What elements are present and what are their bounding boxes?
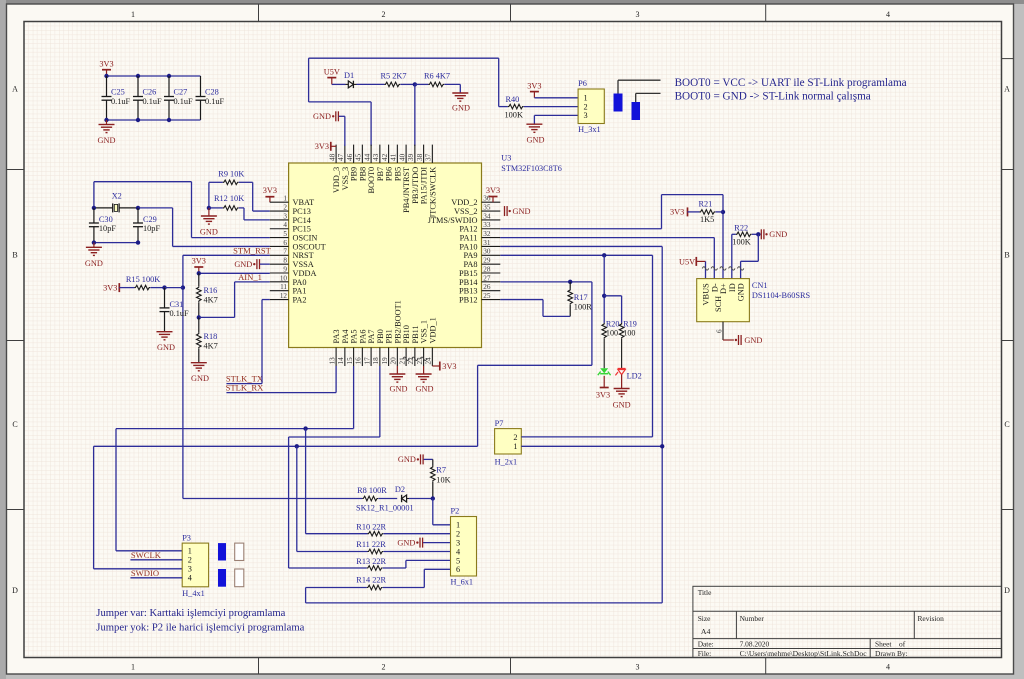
node R22/GND <box>756 232 760 236</box>
svg-text:3: 3 <box>584 111 588 120</box>
svg-text:C29: C29 <box>143 215 157 224</box>
svg-text:PC15: PC15 <box>293 225 311 234</box>
svg-text:VDD_2: VDD_2 <box>451 198 477 207</box>
svg-text:B: B <box>1004 250 1009 259</box>
wire P6 pin3 to GND <box>534 115 578 124</box>
svg-text:42: 42 <box>381 153 389 161</box>
capacitor C28 0.1uF <box>196 76 225 120</box>
node PA9/R20 <box>602 253 606 257</box>
svg-text:GND: GND <box>234 260 252 269</box>
svg-text:2: 2 <box>188 556 192 565</box>
resistor R8 100R <box>357 486 387 501</box>
svg-text:R10 22R: R10 22R <box>356 522 386 531</box>
svg-text:4K7: 4K7 <box>204 296 218 305</box>
svg-text:3V3: 3V3 <box>442 362 456 371</box>
capacitor C26 0.1uF <box>133 76 162 120</box>
wire ID to R22 <box>731 234 733 278</box>
wire R12 to PC14 <box>244 208 270 220</box>
resistor R5 2K7 <box>381 72 407 87</box>
svg-text:PA7: PA7 <box>367 330 376 344</box>
svg-text:D: D <box>1004 586 1010 595</box>
svg-text:C: C <box>12 420 17 429</box>
connector P6 H_3x1 <box>578 79 604 134</box>
wire PA11 to D- (USB) <box>500 238 714 279</box>
svg-text:D: D <box>12 586 18 595</box>
svg-text:PA5: PA5 <box>350 330 359 344</box>
svg-text:PB12: PB12 <box>459 295 477 304</box>
resistor R11 22R <box>356 540 450 554</box>
svg-text:14: 14 <box>337 357 345 365</box>
node R15/C31 <box>162 285 166 289</box>
note BOOT0=GND <box>675 91 871 103</box>
power port 3V3 (R15) <box>103 283 119 292</box>
ground (crystal) <box>85 243 103 268</box>
svg-text:DS1104-B60SRS: DS1104-B60SRS <box>752 291 811 300</box>
ground (R6) <box>452 93 470 113</box>
IC U3 STM32F103C8T6 <box>270 145 562 366</box>
ground bracket (VSS_3 pin47) <box>313 111 345 146</box>
svg-text:R19: R19 <box>623 319 637 328</box>
svg-text:Title: Title <box>698 588 712 597</box>
wire NRST <box>183 255 270 498</box>
resistor R12 10K <box>209 194 244 210</box>
svg-text:A: A <box>12 84 18 93</box>
svg-text:File:: File: <box>698 649 712 658</box>
svg-text:PB7: PB7 <box>376 167 385 181</box>
wire U5V to VBUS <box>705 261 707 278</box>
wire BOOT0 to R40 <box>499 58 508 106</box>
svg-text:C30: C30 <box>99 215 113 224</box>
svg-text:PB10: PB10 <box>402 325 411 343</box>
net label SWDIO <box>131 568 159 578</box>
capacitor C31 0.1uF <box>160 288 190 332</box>
resistor R22 100K <box>732 224 759 247</box>
svg-text:11: 11 <box>280 283 287 291</box>
svg-text:R14 22R: R14 22R <box>356 575 386 584</box>
svg-text:7: 7 <box>283 248 287 256</box>
svg-text:PA10: PA10 <box>459 242 477 251</box>
capacitor C25 0.1uF <box>102 76 131 120</box>
svg-text:U5V: U5V <box>679 257 695 266</box>
jumper shunt 1 (P3) <box>218 543 226 560</box>
svg-text:6: 6 <box>456 565 460 574</box>
svg-text:2: 2 <box>584 102 588 111</box>
svg-text:GND: GND <box>98 136 116 145</box>
svg-text:2: 2 <box>382 10 386 19</box>
svg-text:GND: GND <box>200 227 218 236</box>
svg-text:46: 46 <box>346 153 354 161</box>
connector P2 H_6x1 <box>451 507 477 587</box>
wire P7 pin1 to PA10 <box>521 445 662 447</box>
svg-text:39: 39 <box>407 153 415 161</box>
svg-text:PB9: PB9 <box>350 167 359 181</box>
svg-text:100: 100 <box>606 328 618 337</box>
svg-text:of: of <box>899 640 906 649</box>
resistor R13 22R <box>356 557 450 571</box>
svg-text:D-: D- <box>710 283 719 292</box>
svg-text:R8 100R: R8 100R <box>357 486 387 495</box>
wire branch to R10 <box>306 429 368 534</box>
ground (R9/R12) <box>200 208 218 236</box>
svg-text:2: 2 <box>513 433 517 442</box>
svg-text:PB14: PB14 <box>459 278 478 287</box>
wire R40 to P6 pin2 <box>524 106 578 108</box>
svg-text:BOOT0 = VCC -> UART ile ST-Lin: BOOT0 = VCC -> UART ile ST-Link programl… <box>675 77 907 89</box>
svg-text:47: 47 <box>337 153 345 161</box>
power port 3V3 (green LED) <box>596 376 610 400</box>
svg-text:3: 3 <box>636 10 640 19</box>
svg-text:D+: D+ <box>719 283 728 294</box>
svg-text:B: B <box>12 250 17 259</box>
svg-text:3: 3 <box>636 663 640 672</box>
wire R20/R19 column <box>602 255 622 323</box>
ground (VSS_1 pin23) <box>416 366 434 394</box>
node D+/R21 <box>721 210 725 214</box>
wire SWCLK (P3 pin2) <box>130 559 182 561</box>
svg-text:6: 6 <box>283 239 287 247</box>
svg-text:P7: P7 <box>495 419 504 428</box>
svg-text:3V3: 3V3 <box>315 142 329 151</box>
ground bracket (R22) <box>761 229 787 239</box>
wire BOOT0 top run <box>309 58 499 146</box>
wire cap bank bottom bus <box>104 118 200 122</box>
svg-text:C28: C28 <box>205 88 219 97</box>
svg-text:BOOT0 = GND -> ST-Link normal: BOOT0 = GND -> ST-Link normal çalışma <box>675 91 871 103</box>
wire CN1 pin6 to GND <box>716 322 734 340</box>
svg-text:R15 100K: R15 100K <box>126 275 160 284</box>
node PA5 branch <box>303 426 307 430</box>
svg-text:3: 3 <box>456 539 460 548</box>
power port 3V3 (VDD_3 pin48) <box>315 142 336 151</box>
svg-text:R22: R22 <box>734 224 748 233</box>
wire PB0 run <box>289 366 380 568</box>
capacitor C27 0.1uF <box>164 76 193 120</box>
resistor R19 100 <box>619 319 637 338</box>
svg-text:PA15/JTDI: PA15/JTDI <box>420 167 429 205</box>
svg-text:2: 2 <box>382 663 386 672</box>
ground (PB2 pin20) <box>389 366 407 394</box>
svg-text:Jumper var: Karttaki işlemciyi: Jumper var: Karttaki işlemciyi programla… <box>96 608 285 619</box>
net label SWCLK <box>131 550 162 560</box>
svg-text:4: 4 <box>886 10 890 19</box>
svg-text:10K: 10K <box>436 475 450 484</box>
wire PA9 run <box>500 255 652 437</box>
wire R5 to node <box>400 83 414 85</box>
USB connector CN1 DS1104-B60SRS <box>697 279 811 322</box>
svg-text:3V3: 3V3 <box>263 186 277 195</box>
svg-text:VBUS: VBUS <box>702 283 711 306</box>
svg-text:4: 4 <box>283 221 287 229</box>
svg-text:4K7: 4K7 <box>204 342 218 351</box>
node P7 pin1/PA10 <box>660 444 664 448</box>
diode D1 <box>344 71 357 88</box>
ground bracket (R7) <box>398 454 433 464</box>
svg-text:PB8: PB8 <box>358 167 367 181</box>
svg-text:SCH: SCH <box>714 296 723 312</box>
wire P7 pin2 to PA9 <box>521 436 652 438</box>
svg-text:PA0: PA0 <box>293 278 307 287</box>
svg-text:R40: R40 <box>506 95 520 104</box>
svg-text:25: 25 <box>483 292 491 300</box>
power port 3V3 (R21) <box>670 207 687 216</box>
svg-text:C25: C25 <box>111 88 125 97</box>
svg-text:32: 32 <box>483 230 491 238</box>
svg-text:VSS_2: VSS_2 <box>454 207 478 216</box>
wire cap bank top bus <box>104 74 200 78</box>
wire U5V to D1 <box>332 83 346 85</box>
ground bracket (P2 pin3) <box>397 538 450 548</box>
svg-text:29: 29 <box>483 257 491 265</box>
svg-text:GND: GND <box>527 136 545 145</box>
svg-text:GND: GND <box>452 104 470 113</box>
wire R14 to PA10 run <box>306 588 663 603</box>
ground (C31) <box>157 332 175 352</box>
svg-text:P3: P3 <box>182 533 191 542</box>
svg-text:1: 1 <box>456 521 460 530</box>
svg-text:ID: ID <box>728 283 737 292</box>
wire R8 to D2 <box>378 498 397 500</box>
wire R22 to CN1 GND pin <box>741 234 759 278</box>
svg-text:GND: GND <box>191 374 209 383</box>
node R7/D2/P2 <box>431 496 435 500</box>
svg-text:H_6x1: H_6x1 <box>451 578 474 587</box>
svg-text:PB0: PB0 <box>376 329 385 343</box>
svg-text:Drawn By:: Drawn By: <box>875 649 908 658</box>
connector P3 H_4x1 <box>182 533 208 598</box>
svg-text:C31: C31 <box>170 300 184 309</box>
power port 3V3 (P6) <box>527 81 541 98</box>
svg-text:P6: P6 <box>578 79 587 88</box>
svg-text:U5V: U5V <box>324 67 340 76</box>
svg-text:PB2/BOOT1: PB2/BOOT1 <box>393 300 402 343</box>
svg-text:3V3: 3V3 <box>596 390 610 399</box>
svg-text:12: 12 <box>280 292 288 300</box>
svg-text:GND: GND <box>397 538 415 547</box>
svg-text:A4: A4 <box>701 627 711 636</box>
ground (cap bank) <box>98 120 116 145</box>
svg-text:17: 17 <box>363 357 371 365</box>
svg-text:VSS_1: VSS_1 <box>420 320 429 344</box>
svg-text:PB15: PB15 <box>459 269 477 278</box>
svg-text:0.1uF: 0.1uF <box>111 97 131 106</box>
svg-text:GND: GND <box>390 385 408 394</box>
svg-text:41: 41 <box>390 153 398 161</box>
svg-text:16: 16 <box>355 357 363 365</box>
svg-text:GND: GND <box>313 112 331 121</box>
capacitor C30 10pF <box>89 208 116 243</box>
net label STM_RST <box>233 245 271 255</box>
svg-text:X2: X2 <box>112 192 122 201</box>
svg-text:PA4: PA4 <box>341 329 350 344</box>
svg-text:40: 40 <box>398 153 406 161</box>
jumper socket 1 (P3) <box>235 543 244 560</box>
svg-text:Date:: Date: <box>698 640 714 649</box>
svg-text:H_3x1: H_3x1 <box>578 125 601 134</box>
svg-text:C27: C27 <box>174 88 188 97</box>
svg-text:GND: GND <box>769 230 787 239</box>
wire shunt1 to note <box>618 80 661 93</box>
resistor R14 22R <box>306 569 451 590</box>
node X2 right <box>136 206 140 210</box>
node X2 left <box>92 206 96 210</box>
svg-text:SWCLK: SWCLK <box>131 550 162 560</box>
svg-text:CN1: CN1 <box>752 281 768 290</box>
resistor R10 22R <box>356 522 450 536</box>
svg-text:NRST: NRST <box>293 251 314 260</box>
svg-text:GND: GND <box>737 283 746 301</box>
svg-text:34: 34 <box>483 212 491 220</box>
wire node to P2 pin1 <box>433 499 451 525</box>
svg-text:VDD_1: VDD_1 <box>428 317 437 343</box>
svg-text:3V3: 3V3 <box>99 60 113 69</box>
LED green <box>598 368 611 375</box>
svg-text:5: 5 <box>456 556 460 565</box>
svg-text:STLK_RX: STLK_RX <box>226 382 265 392</box>
node NRST/R15 <box>181 285 185 289</box>
svg-text:AIN_1: AIN_1 <box>238 272 262 282</box>
svg-text:GND: GND <box>513 207 531 216</box>
svg-text:JTCK/SWCLK: JTCK/SWCLK <box>428 167 437 218</box>
wire PB12 to R17 <box>500 300 570 317</box>
svg-text:PB1: PB1 <box>385 329 394 343</box>
svg-text:GND: GND <box>744 336 762 345</box>
svg-text:R12 10K: R12 10K <box>214 194 244 203</box>
svg-text:PB13: PB13 <box>459 287 477 296</box>
resistor R9 10K <box>209 170 253 185</box>
resistor R7 10K <box>431 459 451 498</box>
svg-text:1: 1 <box>188 547 192 556</box>
wire PA5 run <box>116 366 354 551</box>
svg-text:VDDA: VDDA <box>293 269 317 278</box>
svg-text:28: 28 <box>483 265 491 273</box>
svg-text:VSS_3: VSS_3 <box>341 167 350 191</box>
net label STLK_RX <box>226 382 265 392</box>
LED LD2 red <box>615 369 641 381</box>
svg-text:1: 1 <box>131 663 135 672</box>
wire crystal bottom bus <box>92 240 140 244</box>
svg-text:9: 9 <box>283 265 287 273</box>
svg-text:Sheet: Sheet <box>875 640 892 649</box>
svg-text:1: 1 <box>584 94 588 103</box>
node branch to R11 <box>295 444 299 448</box>
svg-text:P2: P2 <box>451 507 460 516</box>
power port 3V3 (cap bank) <box>99 60 113 77</box>
svg-text:R7: R7 <box>436 465 446 474</box>
node R5/R6 junction <box>413 82 417 146</box>
resistor R20 100 <box>602 319 620 338</box>
svg-text:100R: 100R <box>574 303 592 312</box>
svg-text:OSCOUT: OSCOUT <box>293 242 326 251</box>
no-erc marks CN1 pins <box>702 267 744 270</box>
note BOOT0=VCC <box>675 77 907 89</box>
svg-text:3V3: 3V3 <box>527 81 541 90</box>
wire branch to R11 v <box>297 446 368 551</box>
svg-text:19: 19 <box>381 357 389 365</box>
svg-text:18: 18 <box>372 357 380 365</box>
resistor R21 1K5 <box>688 199 724 224</box>
svg-text:GND: GND <box>157 343 175 352</box>
svg-text:Revision: Revision <box>918 614 945 623</box>
svg-text:Size: Size <box>698 614 711 623</box>
svg-text:3V3: 3V3 <box>670 208 684 217</box>
svg-text:31: 31 <box>483 239 491 247</box>
svg-text:3V3: 3V3 <box>192 257 206 266</box>
svg-text:GND: GND <box>85 259 103 268</box>
svg-text:0.1uF: 0.1uF <box>143 97 163 106</box>
ground (P6) <box>526 124 544 144</box>
connector P7 H_2x1 <box>495 419 522 467</box>
svg-text:10pF: 10pF <box>143 224 160 233</box>
svg-text:C:\Users\mehme\Desktop\StLink.: C:\Users\mehme\Desktop\StLink.SchDoc <box>740 649 868 658</box>
wire STLK_TX (PA2) <box>226 300 269 384</box>
wire R9 down <box>208 182 210 208</box>
wire AIN_1 (PA0) <box>235 282 270 318</box>
svg-text:R20: R20 <box>606 319 620 328</box>
jumper shunt 2 (P3) <box>218 569 226 587</box>
wire node to R6 <box>415 83 429 85</box>
power port 3V3 (VDD_1 pin24) <box>432 362 456 371</box>
svg-text:33: 33 <box>483 221 491 229</box>
svg-text:PB5: PB5 <box>393 167 402 181</box>
wire NRST to R8 <box>183 498 362 500</box>
svg-text:100: 100 <box>623 328 635 337</box>
svg-text:1: 1 <box>131 10 135 19</box>
wire R19 to LED <box>621 339 623 368</box>
svg-text:PA8: PA8 <box>464 260 478 269</box>
wire OSCIN run <box>94 182 270 238</box>
svg-text:C: C <box>1004 420 1009 429</box>
svg-text:R11 22R: R11 22R <box>356 540 386 549</box>
label SK12_R1_00001 <box>356 504 414 513</box>
svg-text:44: 44 <box>363 153 371 161</box>
wire D2 to node <box>409 498 433 500</box>
diode D2 <box>395 485 409 502</box>
svg-text:1K5: 1K5 <box>700 215 714 224</box>
svg-text:15: 15 <box>346 357 354 365</box>
svg-text:1: 1 <box>513 442 517 451</box>
ground (R18) <box>191 363 209 383</box>
svg-text:PA1: PA1 <box>293 287 307 296</box>
svg-text:R5 2K7: R5 2K7 <box>381 72 407 81</box>
ground bracket (CN1 shield) <box>735 335 763 345</box>
svg-text:GND: GND <box>416 385 434 394</box>
svg-text:GND: GND <box>613 400 631 409</box>
svg-text:PA11: PA11 <box>460 234 478 243</box>
node R16/R18 <box>197 315 201 319</box>
svg-text:13: 13 <box>328 357 336 365</box>
svg-text:0.1uF: 0.1uF <box>205 97 225 106</box>
svg-text:30: 30 <box>483 248 491 256</box>
svg-text:R9 10K: R9 10K <box>218 170 244 179</box>
svg-text:PC13: PC13 <box>293 207 311 216</box>
resistor R40 100K <box>505 95 524 120</box>
jumper shunt 1 (P6) <box>614 94 623 112</box>
svg-text:3V3: 3V3 <box>103 283 117 292</box>
svg-text:5: 5 <box>283 230 287 238</box>
svg-text:26: 26 <box>483 283 491 291</box>
svg-text:VSSA: VSSA <box>293 260 314 269</box>
svg-text:Number: Number <box>740 614 765 623</box>
svg-text:0.1uF: 0.1uF <box>174 97 194 106</box>
svg-text:D2: D2 <box>395 485 405 494</box>
svg-text:20: 20 <box>390 357 398 365</box>
svg-text:D1: D1 <box>344 71 354 80</box>
svg-text:PA9: PA9 <box>464 251 478 260</box>
svg-text:C26: C26 <box>143 88 157 97</box>
svg-text:U3: U3 <box>501 154 511 163</box>
svg-text:SK12_R1_00001: SK12_R1_00001 <box>356 504 414 513</box>
power port 3V3 (VBAT) <box>263 186 277 202</box>
